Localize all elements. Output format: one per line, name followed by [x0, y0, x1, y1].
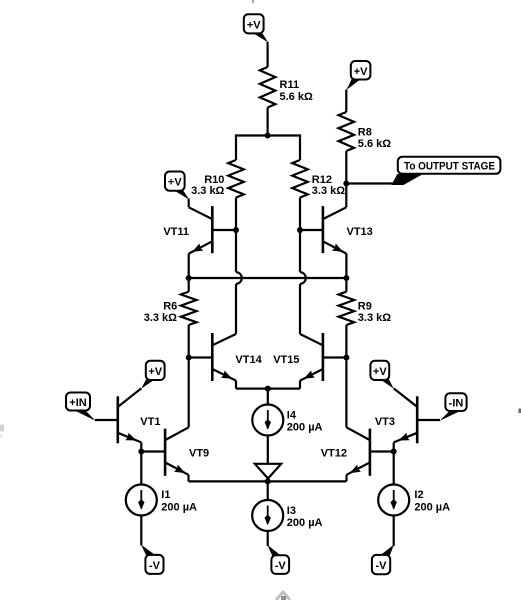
node VT13 base dot [297, 227, 303, 233]
resistor R6 3.3 kOhm [144, 278, 197, 325]
ground triangle symbol [255, 464, 281, 482]
wire VT13 emitter down to rail [345, 254, 347, 278]
svg-text:+V: +V [148, 366, 162, 378]
wire R12 down to VT15 collector (hop over emitter rail) [300, 198, 306, 335]
wire emitter rail VT11-VT13 [189, 277, 347, 279]
svg-text:3.3 kΩ: 3.3 kΩ [191, 185, 224, 197]
transistor VT12 [321, 427, 370, 481]
power label +V (R8 supply) [347, 61, 371, 90]
wire +V to R8 [345, 90, 347, 113]
wire VT14-VT15 emitter bus [236, 388, 300, 390]
node VT14 base dot [186, 355, 192, 361]
wire R8 to output node and down to VT13 collector [345, 151, 347, 207]
power label -V (I1) [141, 545, 164, 574]
power label -V (I2) [372, 545, 394, 575]
wire R10 down to VT14 collector (hop over emitter rail) [236, 198, 242, 335]
svg-text:VT13: VT13 [347, 226, 373, 238]
resistor R8 5.6 kOhm [339, 112, 392, 151]
power label +V (VT1 collector) [141, 361, 165, 389]
wire R11 to node [267, 108, 269, 136]
wire R9 to VT15 base node and down to VT12 collector [345, 325, 347, 427]
stray mark left edge [0, 425, 4, 439]
svg-text:R8: R8 [358, 127, 372, 139]
wire I2 to -V [393, 516, 395, 547]
wire VT3 emitter to node [393, 442, 395, 451]
current source I4 200 uA [252, 405, 322, 436]
svg-text:+V: +V [354, 66, 368, 78]
resistor R9 3.3 kOhm [339, 278, 392, 325]
wire I4 to triangle [267, 436, 269, 464]
node VT1 emitter dot [138, 449, 144, 455]
svg-text:5.6 kΩ: 5.6 kΩ [358, 138, 391, 150]
svg-text:VT14: VT14 [235, 354, 262, 366]
current source I1 200 uA [126, 485, 197, 516]
node output junction dot [343, 181, 349, 187]
svg-text:3.3 kΩ: 3.3 kΩ [144, 312, 177, 324]
svg-text:R11: R11 [280, 79, 300, 91]
svg-text:I2: I2 [414, 489, 423, 501]
svg-text:200 µA: 200 µA [161, 501, 197, 513]
transistor VT1 [118, 388, 161, 443]
svg-text:VT1: VT1 [140, 416, 160, 428]
wire node to VT12 base [370, 450, 394, 452]
svg-text:R6: R6 [163, 300, 177, 312]
transistor VT14 [189, 333, 263, 389]
input label -IN [440, 393, 467, 420]
wire +V to R11 [267, 42, 269, 67]
power label +V (VT3 collector) [370, 361, 394, 389]
wire lower rail VT9-VT12 emitters [189, 480, 347, 482]
transistor VT15 [273, 333, 346, 389]
svg-text:+V: +V [247, 19, 261, 31]
stray mark right edge [519, 409, 521, 414]
wire -IN to VT3 base [417, 419, 440, 421]
svg-text:200 µA: 200 µA [287, 422, 323, 434]
svg-text:3.3 kΩ: 3.3 kΩ [358, 312, 391, 324]
wire node to I1 [140, 452, 142, 485]
current source I2 200 uA [378, 485, 450, 516]
power label +V (VT11 collector) [165, 172, 189, 200]
wire output node to flag [346, 182, 397, 184]
wire node to R10/R12 tops [236, 136, 300, 161]
resistor R12 3.3 kOhm [292, 160, 345, 198]
svg-text:-V: -V [376, 560, 388, 572]
transistor VT3 [375, 388, 417, 443]
node VT11 base dot [233, 227, 239, 233]
wire VT1 emitter to node [140, 442, 142, 451]
node R11 junction dot [265, 133, 271, 139]
wire R6 to VT14 base node and down to VT9 collector [188, 325, 190, 427]
svg-text:200 µA: 200 µA [414, 501, 450, 513]
node VT15 base dot [343, 355, 349, 361]
transistor VT9 [165, 427, 209, 481]
resistor R10 3.3 kOhm [191, 160, 244, 198]
svg-text:VT11: VT11 [163, 226, 189, 238]
wire VT11 emitter down to rail [188, 254, 190, 278]
wire node to VT9 base [141, 450, 165, 452]
transistor VT13 [300, 206, 373, 254]
input label +IN [66, 393, 96, 421]
svg-text:To OUTPUT STAGE: To OUTPUT STAGE [404, 160, 495, 172]
wire node to I2 [393, 452, 395, 485]
wire I1 to -V [140, 516, 142, 546]
node emitter bus center dot [265, 386, 271, 392]
transistor VT11 [163, 199, 236, 254]
stray mark top edge [252, 0, 254, 3]
node lower rail center dot [265, 478, 271, 484]
node rail left dot [186, 275, 192, 281]
wire +IN to VT1 base [95, 419, 118, 421]
svg-text:VT12: VT12 [321, 448, 347, 460]
node rail right dot [343, 275, 349, 281]
svg-text:-IN: -IN [449, 398, 464, 410]
svg-text:200 µA: 200 µA [287, 517, 323, 529]
node VT3 emitter dot [391, 449, 397, 455]
wire I3 to -V [267, 531, 269, 546]
svg-text:I3: I3 [287, 505, 296, 517]
svg-text:VT3: VT3 [375, 416, 395, 428]
svg-text:+V: +V [373, 366, 387, 378]
svg-text:VT15: VT15 [273, 354, 299, 366]
svg-text:5.6 kΩ: 5.6 kΩ [280, 91, 313, 103]
svg-text:I1: I1 [161, 489, 170, 501]
svg-text:VT9: VT9 [189, 448, 209, 460]
current source I3 200 uA [252, 500, 322, 531]
svg-text:-V: -V [149, 560, 161, 572]
svg-text:-V: -V [275, 560, 287, 572]
svg-text:3.3 kΩ: 3.3 kΩ [312, 185, 345, 197]
stray mark bottom edge [276, 592, 290, 600]
wire rail to I3 [267, 481, 269, 500]
net flag To OUTPUT STAGE [392, 157, 501, 185]
wire bus to I4 [267, 389, 269, 405]
resistor R11 5.6 kOhm [260, 67, 313, 108]
svg-text:I4: I4 [287, 410, 297, 422]
power label +V (top supply for R11) [244, 14, 268, 42]
svg-text:R9: R9 [358, 300, 372, 312]
svg-text:+V: +V [168, 177, 182, 189]
power label -V (I3) [267, 545, 289, 574]
svg-text:+IN: +IN [69, 397, 86, 409]
